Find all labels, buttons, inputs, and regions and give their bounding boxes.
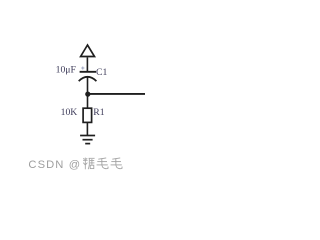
wire junction to resistor <box>87 94 89 108</box>
wire capacitor to junction <box>87 77 89 94</box>
svg-text:R1: R1 <box>93 107 104 118</box>
svg-text:10K: 10K <box>61 107 78 118</box>
wire triangle to capacitor <box>86 57 88 71</box>
power symbol (open triangle) <box>81 45 95 57</box>
watermark glyph tang <box>83 158 95 170</box>
wire resistor to ground <box>86 123 88 136</box>
watermark glyph mao 1 <box>97 158 109 169</box>
svg-text:C1: C1 <box>96 67 107 78</box>
svg-text:10μF: 10μF <box>56 65 77 76</box>
watermark glyph mao 2 <box>111 158 123 169</box>
capacitor C1 (polarized) <box>79 67 97 82</box>
node junction dot <box>85 92 90 97</box>
resistor R1 (box) <box>83 108 92 122</box>
svg-text:CSDN @: CSDN @ <box>28 159 81 171</box>
wire horizontal to right edge <box>88 93 145 95</box>
ground <box>80 136 95 144</box>
